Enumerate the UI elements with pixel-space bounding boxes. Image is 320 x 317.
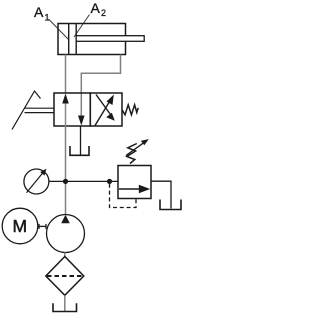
node J2 — [107, 179, 112, 184]
valve left position arrow B to T (down) — [78, 116, 85, 126]
cylinder piston — [69, 24, 77, 55]
relief valve internal arrow — [119, 185, 150, 194]
relief valve pilot dashed line — [110, 184, 137, 208]
valve V1 body — [54, 93, 122, 126]
wire gauge to junction — [49, 180, 66, 182]
label A2 — [74, 0, 106, 37]
tank T2 (relief outlet) — [160, 200, 181, 210]
svg-text:M: M — [13, 216, 28, 236]
relief valve adjustment arrow — [126, 139, 149, 155]
motor M1 — [2, 208, 38, 244]
svg-text:A: A — [34, 4, 44, 20]
svg-text:A: A — [91, 0, 101, 16]
valve spring (right) — [122, 105, 138, 115]
wire A1 port to valve A — [65, 55, 67, 94]
svg-text:1: 1 — [45, 13, 50, 23]
svg-text:2: 2 — [101, 8, 106, 18]
tank T1 (under valve) — [70, 146, 89, 155]
valve left position arrow P to A (up) — [62, 94, 69, 127]
wire valve T port down — [80, 126, 82, 155]
cylinder rod — [76, 36, 144, 42]
wire main pressure line to relief valve — [66, 180, 119, 182]
pump P1 — [47, 215, 85, 253]
wire A2 port to valve B — [81, 55, 120, 118]
valve right position crossed arrow 1 (up-right) — [95, 95, 114, 126]
gauge G1 — [24, 169, 49, 194]
valve lever (left) — [12, 91, 54, 130]
wire P line valve to pump — [65, 126, 67, 215]
wire pump to filter — [64, 253, 66, 259]
label A1 — [34, 4, 69, 40]
node J1 — [63, 179, 68, 184]
shaft coupling motor-pump — [39, 224, 47, 229]
wire filter to tank — [64, 295, 66, 311]
relief valve spring — [127, 144, 137, 164]
wire relief outlet to tank — [151, 181, 171, 208]
relief valve RV1 body — [118, 166, 151, 199]
valve right position crossed arrow 2 (down-right) — [96, 95, 115, 121]
filter F1 — [46, 257, 84, 296]
tank T3 (suction) — [53, 303, 77, 311]
cylinder C1 body — [58, 24, 126, 55]
